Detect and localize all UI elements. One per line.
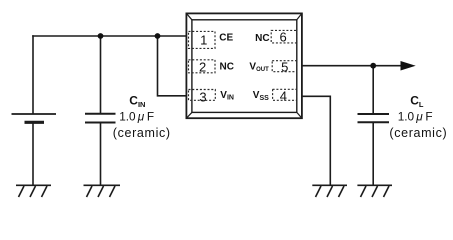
pin 4 box — [273, 89, 297, 100]
svg-text:NC: NC — [255, 33, 269, 44]
ground VSS — [312, 185, 347, 197]
svg-text:6: 6 — [279, 29, 286, 44]
ground CL — [357, 185, 392, 197]
battery BT1 — [12, 114, 57, 122]
svg-text:1: 1 — [200, 33, 207, 48]
svg-text:2: 2 — [199, 59, 206, 74]
svg-text:4: 4 — [280, 89, 287, 104]
wire CL top lead — [372, 66, 374, 114]
capacitor CL — [358, 114, 390, 122]
wire VOUT rail — [302, 65, 401, 67]
svg-text:(ceramic): (ceramic) — [113, 126, 171, 140]
pin 1 box — [189, 31, 216, 48]
svg-text:NC: NC — [220, 62, 234, 73]
wire battery top lead — [32, 36, 34, 113]
wire battery bottom lead — [32, 123, 34, 185]
wire VIN branch to pin3 — [158, 36, 187, 96]
op-amp U1 package bevel diagonals — [186, 13, 302, 118]
pin 3 box — [189, 90, 216, 101]
op-amp U1 package outline outer — [186, 13, 302, 118]
svg-text:(ceramic): (ceramic) — [389, 126, 447, 140]
svg-text:5: 5 — [281, 59, 288, 74]
ground battery — [16, 185, 51, 197]
svg-text:CE: CE — [219, 32, 233, 43]
wire CIN top lead — [100, 36, 102, 113]
op-amp U1 package outline inner — [192, 20, 297, 113]
wire VSS to ground — [302, 96, 330, 185]
ground CIN — [84, 185, 121, 197]
pin 5 box — [272, 61, 297, 72]
pin 6 box — [271, 30, 297, 43]
arrow VOUT output — [401, 61, 416, 71]
wire CIN bottom lead — [100, 123, 102, 185]
wire VIN top rail — [33, 35, 187, 37]
node junction VOUT-CL — [370, 63, 376, 69]
capacitor CIN — [85, 114, 116, 123]
node junction VIN-branch — [155, 33, 161, 39]
node junction VIN-CIN — [98, 33, 104, 39]
svg-text:3: 3 — [199, 90, 206, 105]
wire CL bottom lead — [372, 123, 374, 186]
pin 2 box — [189, 60, 216, 73]
